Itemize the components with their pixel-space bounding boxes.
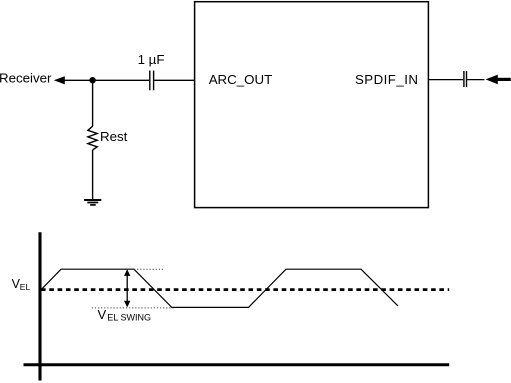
- svg-text:EL SWING: EL SWING: [107, 313, 151, 323]
- svg-text:EL: EL: [20, 282, 31, 292]
- svg-text:V: V: [98, 307, 107, 322]
- svg-text:1 µF: 1 µF: [138, 52, 165, 67]
- svg-text:Receiver: Receiver: [0, 71, 52, 86]
- svg-text:Rest: Rest: [100, 129, 128, 144]
- svg-text:SPDIF_IN: SPDIF_IN: [355, 72, 418, 87]
- svg-text:ARC_OUT: ARC_OUT: [209, 72, 273, 87]
